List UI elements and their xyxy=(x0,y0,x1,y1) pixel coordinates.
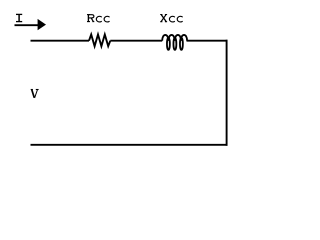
inductor Xcc xyxy=(162,35,187,50)
wire bottom xyxy=(31,144,228,146)
current arrow I xyxy=(15,19,47,30)
resistor label Rcc xyxy=(87,15,110,22)
node I label xyxy=(16,14,22,22)
resistor Rcc xyxy=(89,35,110,47)
wire right vertical xyxy=(226,40,228,146)
wire top-left segment xyxy=(31,40,90,42)
wire inductor to top-right corner xyxy=(187,40,228,42)
inductor label Xcc xyxy=(160,15,182,22)
node V label xyxy=(31,90,39,98)
wire between resistor and inductor xyxy=(110,40,162,42)
